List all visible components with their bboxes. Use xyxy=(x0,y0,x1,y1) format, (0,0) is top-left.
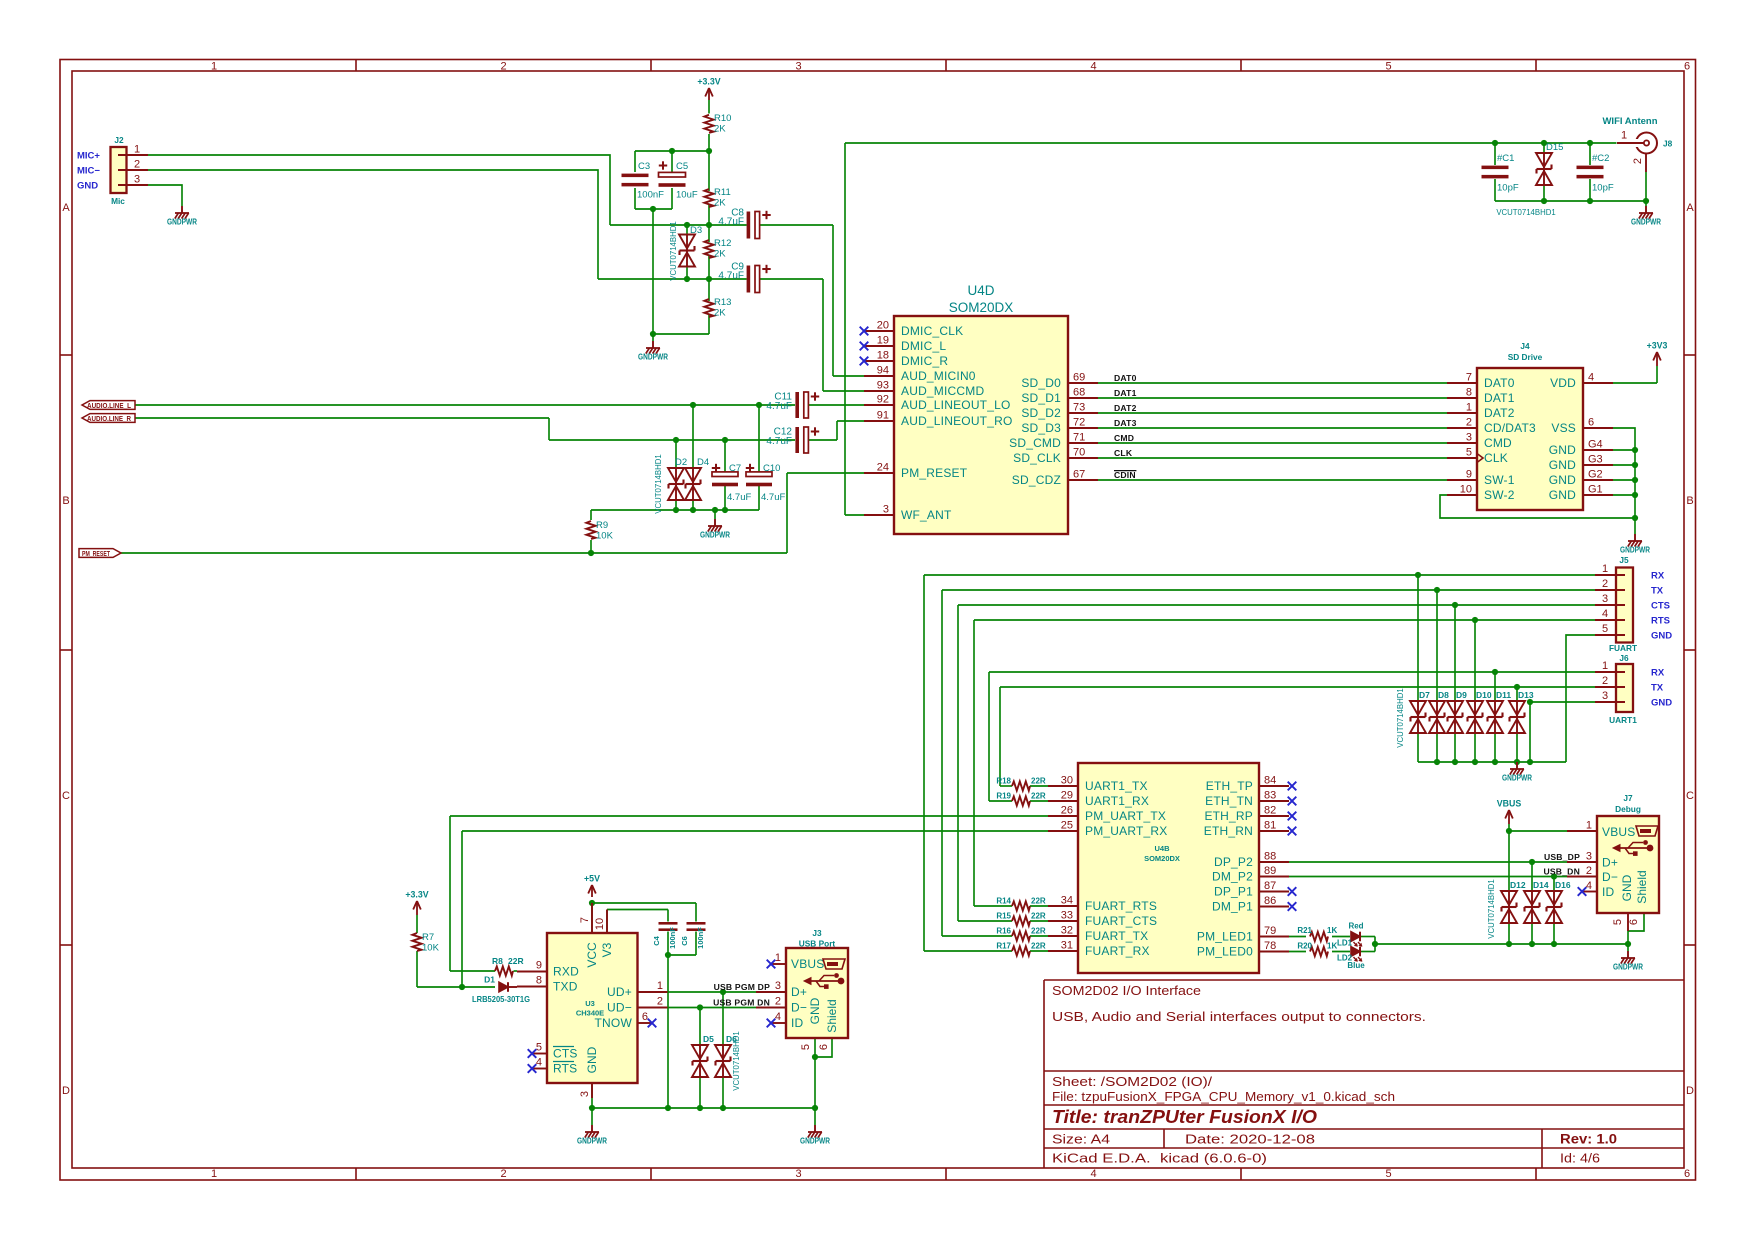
svg-text:ETH_TP: ETH_TP xyxy=(1206,779,1253,793)
svg-text:D12: D12 xyxy=(1510,880,1526,890)
svg-text:FUART: FUART xyxy=(1609,643,1637,653)
svg-text:DP_P2: DP_P2 xyxy=(1214,855,1253,869)
svg-text:D+: D+ xyxy=(791,985,807,999)
svg-text:UART1_TX: UART1_TX xyxy=(1085,779,1148,793)
svg-text:D3: D3 xyxy=(690,225,702,236)
svg-text:D+: D+ xyxy=(1602,856,1618,870)
svg-text:RX: RX xyxy=(1651,571,1665,582)
svg-text:4.7uF: 4.7uF xyxy=(761,492,785,503)
svg-text:2K: 2K xyxy=(714,308,726,319)
svg-text:+3V3: +3V3 xyxy=(1647,341,1668,351)
svg-text:J7: J7 xyxy=(1623,793,1633,803)
svg-text:5: 5 xyxy=(1385,61,1391,73)
svg-text:RX: RX xyxy=(1651,668,1665,679)
svg-text:19: 19 xyxy=(877,335,889,347)
svg-text:10K: 10K xyxy=(422,943,440,954)
svg-text:GND: GND xyxy=(1549,458,1576,472)
svg-text:RXD: RXD xyxy=(553,965,579,979)
svg-text:Red: Red xyxy=(1348,922,1363,931)
svg-text:UART1: UART1 xyxy=(1609,715,1637,725)
svg-text:22R: 22R xyxy=(1031,912,1046,921)
svg-text:4: 4 xyxy=(775,1011,781,1023)
svg-text:File: tzpuFusionX_FPGA_CPU_Mem: File: tzpuFusionX_FPGA_CPU_Memory_v1_0.k… xyxy=(1052,1089,1395,1104)
svg-text:A: A xyxy=(62,202,70,214)
svg-text:3: 3 xyxy=(1602,690,1608,702)
svg-text:D9: D9 xyxy=(1456,690,1467,700)
svg-text:AUD_LINEOUT_RO: AUD_LINEOUT_RO xyxy=(901,414,1013,428)
svg-text:DM_P1: DM_P1 xyxy=(1212,900,1253,914)
svg-text:C10: C10 xyxy=(763,463,780,474)
svg-text:USB_DN: USB_DN xyxy=(1543,867,1580,877)
svg-text:VBUS: VBUS xyxy=(791,957,824,971)
svg-text:1: 1 xyxy=(775,952,781,964)
svg-text:4.7uF: 4.7uF xyxy=(766,401,792,412)
svg-text:4: 4 xyxy=(1090,1168,1096,1180)
svg-text:C5: C5 xyxy=(676,161,688,172)
svg-text:R13: R13 xyxy=(714,297,731,308)
svg-text:1: 1 xyxy=(657,980,663,992)
svg-text:J3: J3 xyxy=(812,928,822,938)
svg-text:ETH_RN: ETH_RN xyxy=(1204,824,1253,838)
svg-text:8: 8 xyxy=(536,975,542,987)
svg-text:PM_RESET: PM_RESET xyxy=(82,549,110,558)
svg-text:Date: 2020-12-08: Date: 2020-12-08 xyxy=(1185,1132,1315,1147)
svg-text:SOM20DX: SOM20DX xyxy=(1144,854,1180,863)
svg-text:DAT2: DAT2 xyxy=(1114,403,1137,413)
svg-text:3: 3 xyxy=(579,1091,591,1097)
svg-text:USB_DP: USB_DP xyxy=(1544,852,1580,862)
svg-text:94: 94 xyxy=(877,365,889,377)
svg-text:6: 6 xyxy=(1684,1168,1690,1180)
svg-text:68: 68 xyxy=(1073,387,1085,399)
svg-text:GNDPWR: GNDPWR xyxy=(1502,773,1532,783)
svg-text:G4: G4 xyxy=(1588,439,1603,451)
svg-text:78: 78 xyxy=(1264,940,1276,952)
svg-text:FUART_CTS: FUART_CTS xyxy=(1085,914,1157,928)
svg-text:+3.3V: +3.3V xyxy=(697,77,720,87)
svg-text:+3.3V: +3.3V xyxy=(405,890,428,900)
svg-text:71: 71 xyxy=(1073,432,1085,444)
svg-text:DAT2: DAT2 xyxy=(1484,406,1515,420)
svg-text:DP_P1: DP_P1 xyxy=(1214,885,1253,899)
svg-text:GNDPWR: GNDPWR xyxy=(1620,545,1650,555)
svg-text:32: 32 xyxy=(1061,925,1073,937)
svg-text:R21: R21 xyxy=(1297,926,1312,935)
svg-text:U4D: U4D xyxy=(967,283,994,298)
svg-text:D1: D1 xyxy=(484,975,495,985)
svg-text:29: 29 xyxy=(1061,790,1073,802)
svg-text:B: B xyxy=(62,495,69,507)
svg-text:2K: 2K xyxy=(714,198,726,209)
svg-text:D15: D15 xyxy=(1546,142,1563,153)
svg-text:ID: ID xyxy=(791,1016,804,1030)
svg-text:Shield: Shield xyxy=(1635,870,1649,903)
svg-text:GNDPWR: GNDPWR xyxy=(577,1136,607,1146)
svg-text:MIC+: MIC+ xyxy=(77,151,100,162)
svg-text:D4: D4 xyxy=(697,457,709,468)
svg-text:GNDPWR: GNDPWR xyxy=(1613,962,1643,972)
svg-text:DMIC_L: DMIC_L xyxy=(901,339,946,353)
svg-text:4: 4 xyxy=(1588,372,1594,384)
svg-text:ID: ID xyxy=(1602,885,1615,899)
svg-text:2: 2 xyxy=(1466,417,1472,429)
svg-text:GNDPWR: GNDPWR xyxy=(800,1136,830,1146)
svg-text:D14: D14 xyxy=(1533,880,1549,890)
svg-text:22R: 22R xyxy=(1031,792,1046,801)
svg-text:4: 4 xyxy=(1602,608,1608,620)
svg-text:RTS: RTS xyxy=(553,1062,577,1076)
svg-text:72: 72 xyxy=(1073,417,1085,429)
svg-text:8: 8 xyxy=(1466,387,1472,399)
svg-text:KiCad E.D.A. kicad (6.0.6-0): KiCad E.D.A. kicad (6.0.6-0) xyxy=(1052,1151,1267,1166)
svg-text:22R: 22R xyxy=(1031,777,1046,786)
svg-text:J6: J6 xyxy=(1619,653,1629,663)
svg-text:USB Port: USB Port xyxy=(799,939,836,949)
svg-text:34: 34 xyxy=(1061,895,1073,907)
svg-text:GND: GND xyxy=(585,1046,599,1073)
svg-text:79: 79 xyxy=(1264,925,1276,937)
svg-text:VCUT0714BHD1: VCUT0714BHD1 xyxy=(669,221,678,280)
svg-text:RTS: RTS xyxy=(1651,616,1670,627)
svg-text:TNOW: TNOW xyxy=(595,1016,633,1030)
svg-text:#C1: #C1 xyxy=(1497,153,1514,164)
svg-text:6: 6 xyxy=(1684,61,1690,73)
svg-text:70: 70 xyxy=(1073,447,1085,459)
svg-text:4.7uF: 4.7uF xyxy=(766,436,792,447)
svg-text:Size: A4: Size: A4 xyxy=(1052,1132,1110,1147)
svg-text:22R: 22R xyxy=(508,956,524,966)
svg-text:93: 93 xyxy=(877,380,889,392)
svg-text:2: 2 xyxy=(775,996,781,1008)
svg-text:Blue: Blue xyxy=(1347,961,1365,970)
svg-text:1: 1 xyxy=(211,1168,217,1180)
svg-text:5: 5 xyxy=(1602,623,1608,635)
svg-text:D10: D10 xyxy=(1476,690,1492,700)
svg-text:D16: D16 xyxy=(1555,880,1571,890)
svg-text:SD_CLK: SD_CLK xyxy=(1013,451,1061,465)
svg-text:VSS: VSS xyxy=(1551,421,1576,435)
svg-text:D: D xyxy=(1686,1085,1694,1097)
svg-text:D5: D5 xyxy=(703,1034,714,1044)
svg-text:GND: GND xyxy=(808,997,822,1024)
svg-text:PM_LED1: PM_LED1 xyxy=(1197,930,1253,944)
svg-text:USB PGM DP: USB PGM DP xyxy=(714,982,771,992)
svg-text:J8: J8 xyxy=(1663,139,1673,149)
svg-text:D8: D8 xyxy=(1438,690,1449,700)
svg-text:SD_D1: SD_D1 xyxy=(1021,391,1061,405)
svg-text:R19: R19 xyxy=(996,792,1011,801)
svg-text:SW-1: SW-1 xyxy=(1484,473,1515,487)
svg-text:DAT1: DAT1 xyxy=(1484,391,1515,405)
svg-text:9: 9 xyxy=(1466,469,1472,481)
svg-text:GNDPWR: GNDPWR xyxy=(638,352,668,362)
svg-text:Debug: Debug xyxy=(1615,804,1641,814)
svg-text:G1: G1 xyxy=(1588,484,1603,496)
svg-text:J5: J5 xyxy=(1619,555,1629,565)
svg-text:25: 25 xyxy=(1061,820,1073,832)
svg-text:ETH_RP: ETH_RP xyxy=(1204,809,1253,823)
svg-text:18: 18 xyxy=(877,350,889,362)
svg-text:87: 87 xyxy=(1264,880,1276,892)
svg-text:CLK: CLK xyxy=(1114,448,1133,458)
svg-text:UART1_RX: UART1_RX xyxy=(1085,794,1149,808)
svg-text:SW-2: SW-2 xyxy=(1484,488,1515,502)
svg-text:SD_CDZ: SD_CDZ xyxy=(1012,473,1061,487)
svg-text:10: 10 xyxy=(1460,484,1472,496)
svg-text:R8: R8 xyxy=(492,956,503,966)
svg-text:92: 92 xyxy=(877,394,889,406)
svg-text:86: 86 xyxy=(1264,895,1276,907)
svg-text:10uF: 10uF xyxy=(676,190,698,201)
svg-text:GNDPWR: GNDPWR xyxy=(1631,217,1661,227)
svg-text:SD_D0: SD_D0 xyxy=(1021,376,1061,390)
svg-text:2K: 2K xyxy=(714,249,726,260)
svg-text:ETH_TN: ETH_TN xyxy=(1205,794,1253,808)
svg-text:3: 3 xyxy=(1466,432,1472,444)
svg-text:4.7uF: 4.7uF xyxy=(727,492,751,503)
svg-text:7: 7 xyxy=(1466,372,1472,384)
svg-text:PM_RESET: PM_RESET xyxy=(901,466,968,480)
svg-text:84: 84 xyxy=(1264,775,1276,787)
svg-text:G2: G2 xyxy=(1588,469,1603,481)
svg-text:2K: 2K xyxy=(714,124,726,135)
svg-text:GND: GND xyxy=(1549,473,1576,487)
svg-text:6: 6 xyxy=(1628,919,1640,925)
svg-text:5: 5 xyxy=(1612,919,1624,925)
svg-text:R7: R7 xyxy=(422,932,434,943)
svg-text:J2: J2 xyxy=(114,135,124,145)
svg-text:CMD: CMD xyxy=(1114,433,1134,443)
svg-text:USB, Audio and Serial interfac: USB, Audio and Serial interfaces output … xyxy=(1052,1009,1426,1024)
svg-text:88: 88 xyxy=(1264,851,1276,863)
svg-text:U3: U3 xyxy=(585,999,595,1008)
svg-text:100nF: 100nF xyxy=(696,927,705,949)
svg-text:D−: D− xyxy=(1602,870,1618,884)
svg-text:#C2: #C2 xyxy=(1592,153,1609,164)
svg-text:FUART_RX: FUART_RX xyxy=(1085,944,1150,958)
svg-text:R14: R14 xyxy=(996,897,1011,906)
svg-text:DAT0: DAT0 xyxy=(1114,373,1137,383)
svg-text:3: 3 xyxy=(775,980,781,992)
svg-text:1: 1 xyxy=(1602,563,1608,575)
svg-text:R18: R18 xyxy=(996,777,1011,786)
svg-text:R10: R10 xyxy=(714,113,731,124)
svg-text:3: 3 xyxy=(883,504,889,516)
svg-text:1: 1 xyxy=(1586,820,1592,832)
svg-text:4.7uF: 4.7uF xyxy=(718,217,744,228)
svg-text:GND: GND xyxy=(1651,698,1672,709)
svg-text:USB PGM DN: USB PGM DN xyxy=(713,998,770,1008)
svg-text:AUDIO.LINE_L: AUDIO.LINE_L xyxy=(87,401,131,410)
svg-text:R15: R15 xyxy=(996,912,1011,921)
svg-text:3: 3 xyxy=(795,1168,801,1180)
svg-text:67: 67 xyxy=(1073,469,1085,481)
svg-text:Mic: Mic xyxy=(111,196,125,206)
svg-text:SD_CMD: SD_CMD xyxy=(1009,436,1061,450)
svg-text:Id: 4/6: Id: 4/6 xyxy=(1560,1151,1600,1166)
svg-text:6: 6 xyxy=(818,1044,830,1050)
svg-text:SOM2D02 I/O Interface: SOM2D02 I/O Interface xyxy=(1052,983,1201,998)
svg-text:VBUS: VBUS xyxy=(1497,799,1522,809)
svg-text:2: 2 xyxy=(500,1168,506,1180)
svg-text:100nF: 100nF xyxy=(668,927,677,949)
svg-text:LRB5205-30T1G: LRB5205-30T1G xyxy=(472,994,530,1004)
svg-text:TX: TX xyxy=(1651,586,1664,597)
svg-text:31: 31 xyxy=(1061,940,1073,952)
svg-text:89: 89 xyxy=(1264,865,1276,877)
svg-text:VCC: VCC xyxy=(585,942,599,968)
svg-text:5: 5 xyxy=(800,1044,812,1050)
svg-text:6: 6 xyxy=(1588,417,1594,429)
svg-text:VCUT0714BHD1: VCUT0714BHD1 xyxy=(1396,688,1405,747)
svg-text:LD1: LD1 xyxy=(1337,939,1353,948)
svg-text:5: 5 xyxy=(1385,1168,1391,1180)
svg-text:SD_D2: SD_D2 xyxy=(1021,406,1061,420)
svg-text:22R: 22R xyxy=(1031,942,1046,951)
svg-text:5: 5 xyxy=(1466,447,1472,459)
svg-text:SOM20DX: SOM20DX xyxy=(949,300,1014,315)
svg-text:A: A xyxy=(1686,202,1694,214)
svg-text:AUD_LINEOUT_LO: AUD_LINEOUT_LO xyxy=(901,398,1011,412)
svg-text:81: 81 xyxy=(1264,820,1276,832)
svg-text:TXD: TXD xyxy=(553,980,578,994)
svg-text:D11: D11 xyxy=(1496,690,1511,700)
svg-text:C3: C3 xyxy=(638,161,650,172)
svg-text:TX: TX xyxy=(1651,683,1664,694)
svg-text:7: 7 xyxy=(579,917,591,923)
svg-text:J4: J4 xyxy=(1520,341,1530,351)
svg-text:CLK: CLK xyxy=(1484,451,1508,465)
svg-text:DAT1: DAT1 xyxy=(1114,388,1137,398)
svg-text:R9: R9 xyxy=(596,520,608,531)
svg-text:R12: R12 xyxy=(714,238,731,249)
svg-text:GND: GND xyxy=(1549,443,1576,457)
svg-text:24: 24 xyxy=(877,462,889,474)
svg-text:1: 1 xyxy=(1621,130,1627,142)
svg-text:Rev: 1.0: Rev: 1.0 xyxy=(1560,1132,1617,1147)
svg-text:2: 2 xyxy=(134,159,140,171)
svg-text:DAT3: DAT3 xyxy=(1114,418,1137,428)
svg-text:VDD: VDD xyxy=(1550,376,1576,390)
svg-text:4.7uF: 4.7uF xyxy=(718,271,744,282)
svg-text:1: 1 xyxy=(134,144,140,156)
svg-text:DAT0: DAT0 xyxy=(1484,376,1515,390)
svg-text:V3: V3 xyxy=(600,942,614,957)
svg-text:CTS: CTS xyxy=(553,1047,578,1061)
svg-text:10: 10 xyxy=(594,918,606,930)
svg-text:1: 1 xyxy=(1466,402,1472,414)
svg-text:VCUT0714BHD1: VCUT0714BHD1 xyxy=(732,1031,741,1090)
svg-text:C6: C6 xyxy=(680,936,689,946)
svg-text:R11: R11 xyxy=(714,187,731,198)
svg-text:PM_UART_RX: PM_UART_RX xyxy=(1085,824,1167,838)
svg-text:69: 69 xyxy=(1073,372,1085,384)
svg-text:D2: D2 xyxy=(675,457,687,468)
svg-text:10K: 10K xyxy=(596,531,614,542)
svg-text:Shield: Shield xyxy=(825,999,839,1032)
svg-text:C: C xyxy=(62,790,70,802)
svg-text:CTS: CTS xyxy=(1651,601,1670,612)
svg-text:R20: R20 xyxy=(1297,942,1312,951)
svg-text:GND: GND xyxy=(1549,488,1576,502)
svg-text:D−: D− xyxy=(791,1001,807,1015)
svg-text:DMIC_R: DMIC_R xyxy=(901,354,948,368)
svg-text:FUART_RTS: FUART_RTS xyxy=(1085,899,1157,913)
svg-text:4: 4 xyxy=(1090,61,1096,73)
svg-text:10pF: 10pF xyxy=(1592,183,1614,194)
svg-text:MIC−: MIC− xyxy=(77,166,100,177)
svg-text:AUDIO.LINE_R: AUDIO.LINE_R xyxy=(87,414,131,423)
svg-text:Sheet: /SOM2D02 (IO)/: Sheet: /SOM2D02 (IO)/ xyxy=(1052,1074,1212,1089)
svg-text:R17: R17 xyxy=(996,942,1011,951)
svg-text:2: 2 xyxy=(1602,675,1608,687)
svg-text:GNDPWR: GNDPWR xyxy=(167,217,197,227)
svg-text:CD/DAT3: CD/DAT3 xyxy=(1484,421,1536,435)
svg-text:CDIN: CDIN xyxy=(1114,470,1136,480)
svg-text:3: 3 xyxy=(1586,851,1592,863)
svg-text:PM_LED0: PM_LED0 xyxy=(1197,945,1253,959)
svg-text:FUART_TX: FUART_TX xyxy=(1085,929,1148,943)
svg-text:GND: GND xyxy=(1620,874,1634,901)
svg-text:GND: GND xyxy=(77,181,98,192)
svg-text:4: 4 xyxy=(536,1057,542,1069)
svg-text:GNDPWR: GNDPWR xyxy=(700,530,730,540)
svg-text:3: 3 xyxy=(1602,593,1608,605)
svg-text:CMD: CMD xyxy=(1484,436,1512,450)
svg-text:GND: GND xyxy=(1651,631,1672,642)
svg-text:D7: D7 xyxy=(1419,690,1430,700)
svg-text:VCUT0714BHD1: VCUT0714BHD1 xyxy=(1487,879,1496,938)
svg-text:22R: 22R xyxy=(1031,897,1046,906)
svg-text:2: 2 xyxy=(1602,578,1608,590)
svg-text:1: 1 xyxy=(1602,660,1608,672)
svg-text:5: 5 xyxy=(536,1042,542,1054)
svg-text:R16: R16 xyxy=(996,927,1011,936)
svg-text:Title: tranZPUter FusionX I/O: Title: tranZPUter FusionX I/O xyxy=(1052,1107,1317,1127)
svg-text:30: 30 xyxy=(1061,775,1073,787)
svg-text:SD_D3: SD_D3 xyxy=(1021,421,1061,435)
svg-text:1K: 1K xyxy=(1327,926,1337,935)
svg-text:2: 2 xyxy=(1586,865,1592,877)
svg-text:73: 73 xyxy=(1073,402,1085,414)
svg-text:33: 33 xyxy=(1061,910,1073,922)
svg-text:B: B xyxy=(1686,495,1693,507)
svg-text:2: 2 xyxy=(1632,158,1644,164)
svg-text:2: 2 xyxy=(657,996,663,1008)
svg-text:26: 26 xyxy=(1061,805,1073,817)
svg-text:3: 3 xyxy=(795,61,801,73)
svg-text:VCUT0714BHD1: VCUT0714BHD1 xyxy=(654,454,663,513)
svg-text:DMIC_CLK: DMIC_CLK xyxy=(901,324,963,338)
svg-text:VCUT0714BHD1: VCUT0714BHD1 xyxy=(1496,208,1555,217)
svg-text:91: 91 xyxy=(877,410,889,422)
svg-text:2: 2 xyxy=(500,61,506,73)
svg-text:C4: C4 xyxy=(652,935,661,945)
svg-text:DM_P2: DM_P2 xyxy=(1212,870,1253,884)
svg-text:SD Drive: SD Drive xyxy=(1508,352,1543,362)
svg-text:4: 4 xyxy=(1586,880,1592,892)
svg-text:20: 20 xyxy=(877,320,889,332)
svg-text:9: 9 xyxy=(536,960,542,972)
svg-text:C: C xyxy=(1686,790,1694,802)
svg-text:3: 3 xyxy=(134,174,140,186)
svg-text:UD+: UD+ xyxy=(607,985,632,999)
svg-text:C7: C7 xyxy=(729,463,741,474)
svg-text:10pF: 10pF xyxy=(1497,183,1519,194)
svg-text:WIFI Antenn: WIFI Antenn xyxy=(1602,116,1657,127)
svg-text:83: 83 xyxy=(1264,790,1276,802)
svg-text:D13: D13 xyxy=(1518,690,1534,700)
